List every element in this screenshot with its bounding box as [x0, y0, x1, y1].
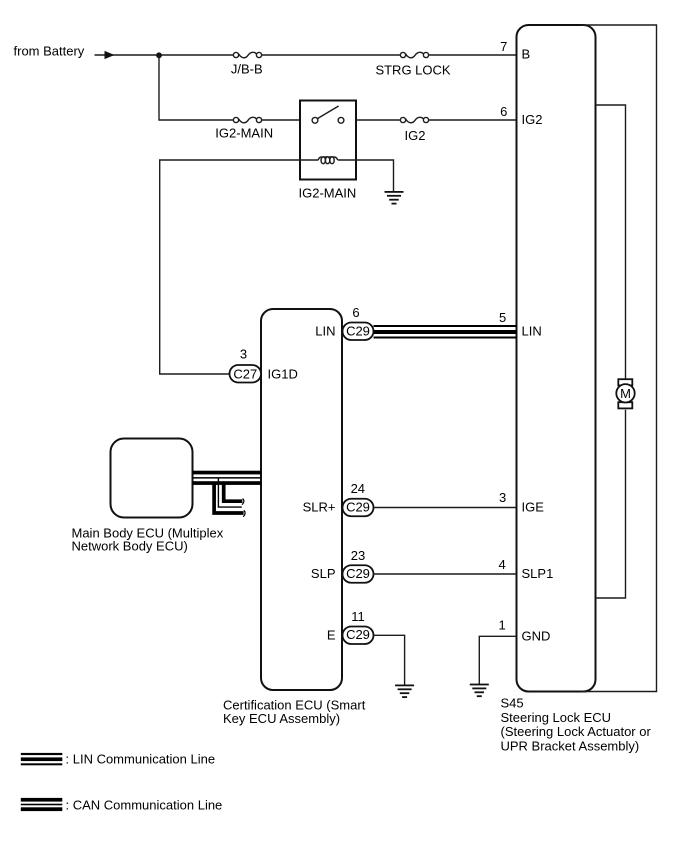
svg-text:IG2-MAIN: IG2-MAIN: [215, 126, 273, 141]
wire: CAN communication line: [193, 471, 262, 485]
ground (relay coil): [385, 191, 404, 205]
svg-text:: LIN Communication Line: : LIN Communication Line: [66, 752, 216, 767]
svg-text:11: 11: [351, 609, 365, 624]
legend symbol LIN line: [21, 753, 63, 765]
ground (E pin): [395, 685, 414, 699]
motor M1: [616, 379, 634, 408]
legend symbol CAN line: [21, 798, 63, 811]
svg-text:3: 3: [240, 347, 247, 362]
wire: SLP to SLP1: [374, 573, 517, 575]
svg-text:IG2: IG2: [522, 112, 543, 127]
wire: coil to left rail and down to C27: [160, 160, 318, 374]
svg-text:C29: C29: [346, 499, 370, 514]
svg-text:IGE: IGE: [522, 500, 545, 515]
svg-text:J/B-B: J/B-B: [231, 61, 263, 76]
svg-text:24: 24: [351, 481, 365, 496]
Main Body ECU box U3: [111, 439, 193, 518]
relay switch contact left: [312, 117, 318, 123]
svg-text:6: 6: [352, 305, 359, 320]
fuse STRG LOCK: [400, 52, 428, 57]
Steering Lock ECU box U2: [517, 25, 596, 692]
svg-text:M: M: [620, 386, 631, 401]
connector C29 (E pin 11): [343, 627, 374, 645]
arrowhead on battery feed: [105, 51, 115, 59]
wire: coil to ground: [338, 160, 394, 192]
svg-text:LIN: LIN: [522, 324, 542, 339]
connector C29 (LIN pin 6): [343, 323, 374, 341]
wire: LIN communication line: [374, 325, 517, 339]
svg-text:S45: S45: [501, 696, 524, 711]
svg-text:SLP: SLP: [311, 566, 336, 581]
svg-text:3: 3: [499, 490, 506, 505]
relay switch contact right: [338, 117, 344, 123]
svg-text:7: 7: [500, 39, 507, 54]
wire: CAN branch stub: [214, 478, 245, 517]
relay coil: [318, 157, 338, 164]
wire: relay switch to IG2 fuse: [356, 119, 400, 121]
svg-text:Steering Lock ECU: Steering Lock ECU: [501, 710, 612, 725]
svg-text:1: 1: [498, 618, 505, 633]
wire: fuse to relay: [262, 119, 300, 121]
wire: junction down to IG2-MAIN branch: [159, 55, 233, 120]
svg-text:B: B: [522, 47, 531, 62]
junction node battery splice: [156, 52, 162, 58]
svg-text:from Battery: from Battery: [14, 44, 85, 59]
svg-text:: CAN Communication Line: : CAN Communication Line: [66, 798, 223, 813]
wire: IG2 fuse to pin IG2: [429, 119, 517, 121]
svg-text:IG2-MAIN: IG2-MAIN: [299, 186, 357, 201]
svg-text:SLP1: SLP1: [522, 566, 554, 581]
svg-text:E: E: [327, 628, 336, 643]
svg-text:C29: C29: [346, 627, 370, 642]
svg-text:IG2: IG2: [405, 128, 426, 143]
connector C29 (SLP pin 23): [343, 565, 374, 583]
svg-text:(Steering Lock Actuator or: (Steering Lock Actuator or: [501, 724, 652, 739]
fuse IG2: [400, 117, 428, 122]
wire: STRG LOCK to pin B: [429, 54, 517, 56]
wire: motor branch from box top: [596, 105, 626, 380]
wire: motor branch back to box: [596, 410, 626, 598]
svg-text:C29: C29: [346, 323, 370, 338]
svg-text:5: 5: [499, 310, 506, 325]
ground (GND pin): [470, 684, 489, 698]
svg-text:Network Body ECU): Network Body ECU): [72, 539, 188, 554]
svg-text:6: 6: [500, 104, 507, 119]
wire: E to ground: [374, 635, 405, 685]
connector C27 (IG1D pin 3): [230, 365, 262, 383]
Certification ECU box U1: [261, 309, 342, 690]
svg-text:C29: C29: [346, 566, 370, 581]
svg-text:GND: GND: [522, 628, 551, 643]
svg-text:23: 23: [351, 548, 365, 563]
svg-text:SLR+: SLR+: [303, 500, 336, 515]
svg-text:UPR Bracket Assembly): UPR Bracket Assembly): [501, 738, 640, 753]
connector C29 (SLR+ pin 24): [343, 499, 374, 517]
wire: outer loop right side: [580, 25, 657, 692]
svg-text:IG1D: IG1D: [268, 367, 298, 382]
svg-text:4: 4: [498, 557, 505, 572]
svg-text:Key ECU Assembly): Key ECU Assembly): [223, 711, 340, 726]
wire: battery feed to junction: [95, 54, 234, 56]
svg-text:STRG LOCK: STRG LOCK: [375, 62, 450, 77]
fuse J/B-B: [233, 52, 261, 57]
wire: SLR+ to IGE: [374, 507, 517, 509]
wire: GND pin to ground: [479, 636, 516, 684]
svg-text:LIN: LIN: [315, 324, 335, 339]
svg-text:C27: C27: [233, 366, 257, 381]
relay switch blade: [317, 106, 338, 119]
relay IG2-MAIN box: [300, 101, 356, 180]
fuse IG2-MAIN: [233, 117, 261, 122]
wire: J/B-B to STRG LOCK: [262, 54, 401, 56]
